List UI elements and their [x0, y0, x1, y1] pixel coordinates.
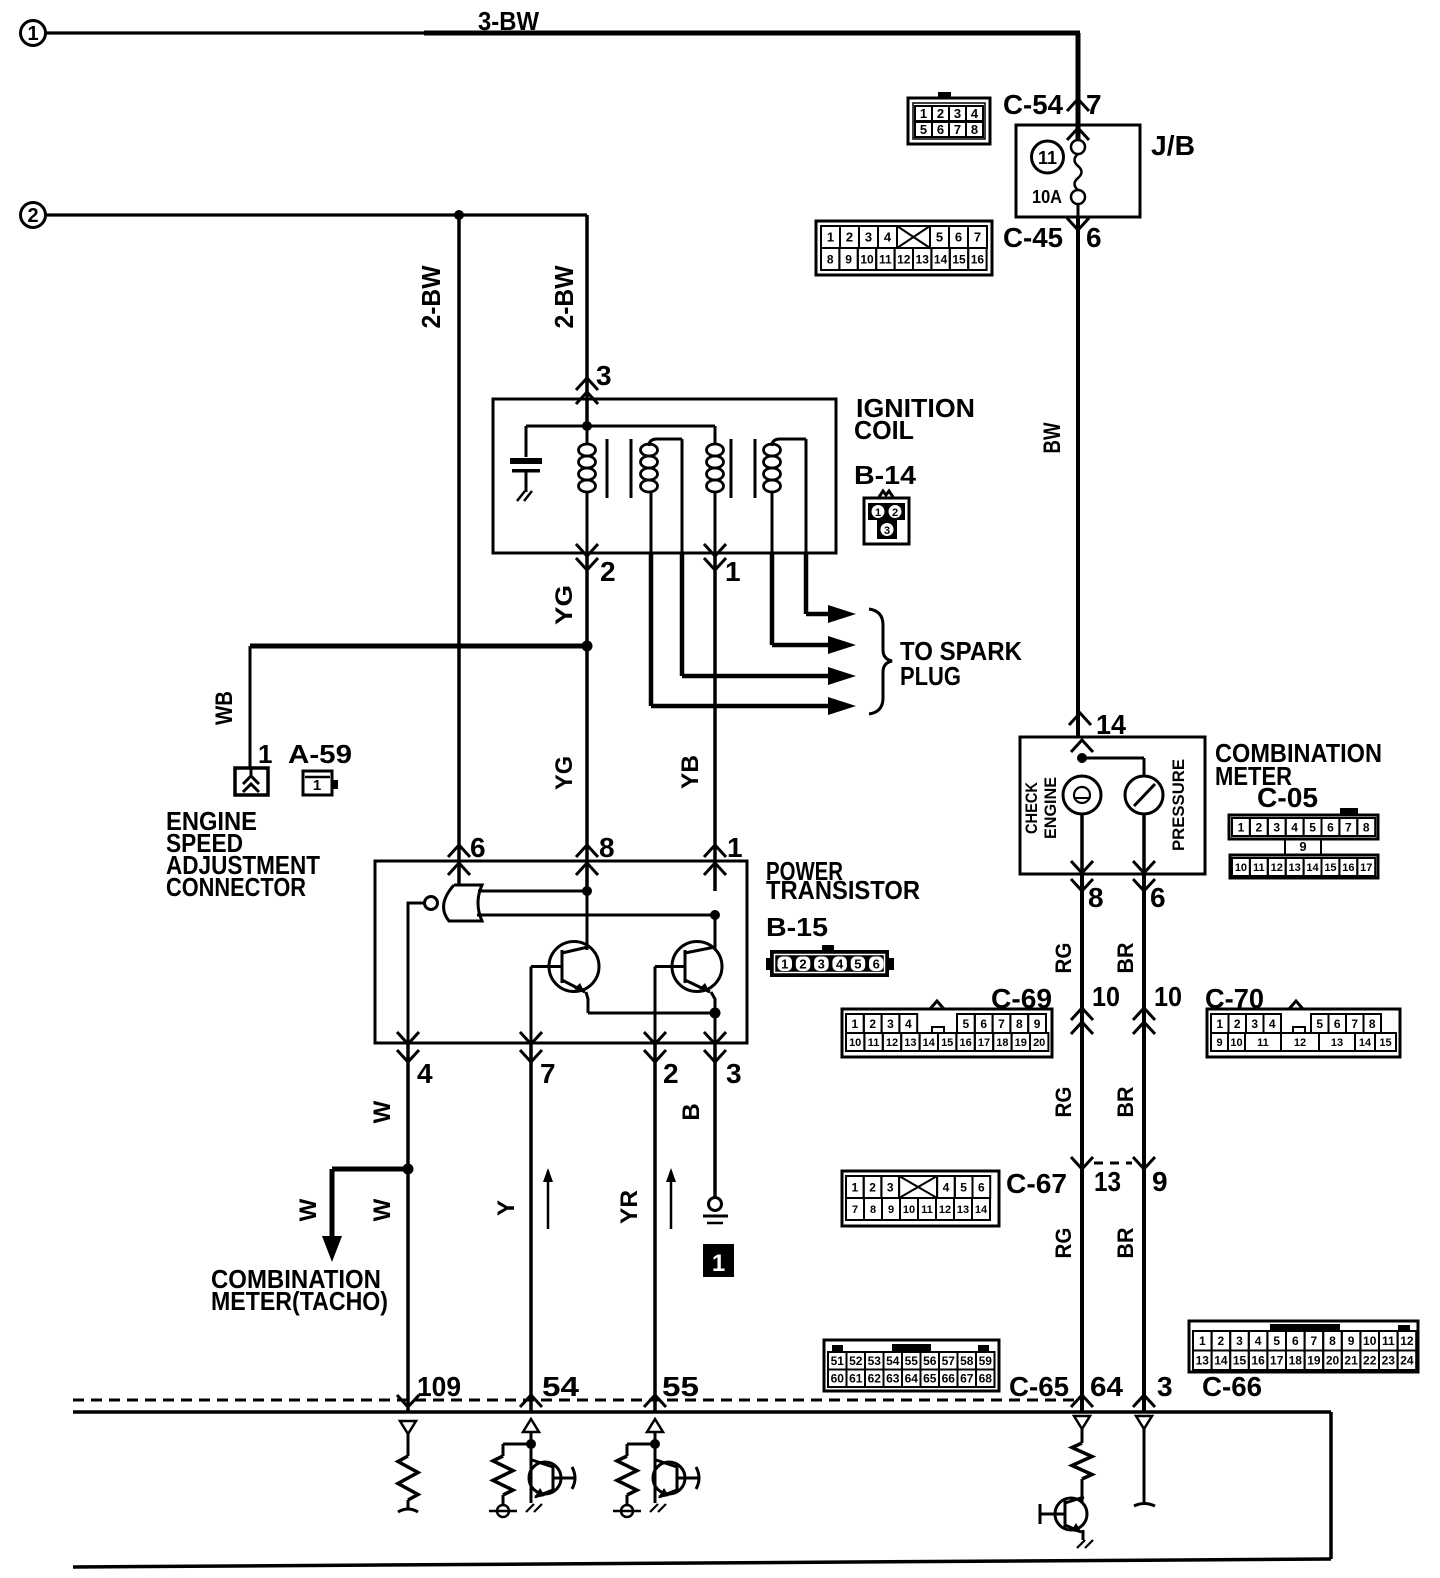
svg-text:1: 1 [313, 777, 321, 794]
svg-text:3: 3 [1157, 1371, 1173, 1402]
svg-text:METER(TACHO): METER(TACHO) [211, 1286, 388, 1316]
svg-text:J/B: J/B [1151, 130, 1195, 161]
svg-text:65: 65 [923, 1372, 937, 1386]
svg-text:22: 22 [1363, 1354, 1377, 1368]
svg-text:55: 55 [905, 1354, 919, 1368]
svg-text:12: 12 [897, 252, 911, 266]
svg-text:109: 109 [417, 1371, 461, 1402]
svg-text:13: 13 [1094, 1166, 1121, 1197]
svg-text:10: 10 [1363, 1334, 1377, 1348]
svg-text:20: 20 [1033, 1037, 1045, 1049]
svg-text:11: 11 [868, 1037, 880, 1049]
svg-text:64: 64 [1090, 1371, 1123, 1402]
svg-text:9: 9 [1348, 1334, 1355, 1348]
svg-text:8: 8 [870, 1204, 876, 1216]
svg-text:1: 1 [727, 832, 743, 863]
svg-text:11: 11 [1257, 1037, 1269, 1049]
svg-text:2: 2 [1234, 1017, 1241, 1031]
svg-text:11: 11 [1038, 148, 1057, 168]
svg-text:RG: RG [1051, 1087, 1076, 1118]
svg-text:7: 7 [1086, 89, 1102, 120]
svg-text:13: 13 [957, 1204, 969, 1216]
svg-text:6: 6 [1086, 222, 1102, 253]
svg-text:WB: WB [211, 691, 238, 725]
svg-text:6: 6 [873, 957, 880, 972]
svg-text:1: 1 [712, 1250, 725, 1277]
svg-text:14: 14 [923, 1037, 936, 1049]
svg-text:18: 18 [996, 1037, 1008, 1049]
svg-text:5: 5 [854, 957, 861, 972]
svg-text:19: 19 [1307, 1354, 1321, 1368]
svg-text:12: 12 [1294, 1037, 1306, 1049]
svg-text:6: 6 [1150, 882, 1166, 913]
svg-text:C-05: C-05 [1257, 782, 1318, 813]
svg-text:7: 7 [852, 1204, 858, 1216]
svg-text:6: 6 [470, 832, 486, 863]
svg-text:11: 11 [1382, 1334, 1395, 1348]
svg-text:61: 61 [849, 1372, 863, 1386]
svg-text:2: 2 [600, 556, 616, 587]
svg-text:Y: Y [493, 1200, 520, 1216]
svg-text:6: 6 [1292, 1334, 1299, 1348]
svg-text:7: 7 [954, 122, 961, 137]
svg-text:YR: YR [616, 1190, 643, 1224]
svg-text:YB: YB [677, 755, 704, 789]
svg-text:6: 6 [1334, 1017, 1341, 1031]
svg-text:15: 15 [941, 1037, 953, 1049]
svg-text:B: B [678, 1103, 705, 1120]
svg-text:10A: 10A [1032, 187, 1062, 207]
svg-text:1: 1 [781, 957, 788, 972]
svg-text:2: 2 [1218, 1334, 1225, 1348]
svg-text:10: 10 [1154, 981, 1182, 1012]
svg-text:16: 16 [1251, 1354, 1265, 1368]
svg-text:10: 10 [903, 1204, 915, 1216]
svg-text:57: 57 [942, 1354, 956, 1368]
svg-text:16: 16 [959, 1037, 971, 1049]
svg-text:8: 8 [599, 832, 615, 863]
svg-text:52: 52 [849, 1354, 863, 1368]
svg-text:12: 12 [1271, 862, 1283, 874]
svg-text:B-14: B-14 [854, 460, 917, 490]
svg-text:3: 3 [865, 230, 872, 245]
svg-text:6: 6 [937, 122, 944, 137]
svg-text:9: 9 [1299, 839, 1306, 854]
svg-text:2: 2 [27, 205, 38, 227]
svg-text:B-15: B-15 [766, 912, 828, 942]
svg-text:1: 1 [27, 23, 38, 45]
svg-text:C-45: C-45 [1003, 222, 1063, 253]
svg-text:13: 13 [1331, 1037, 1343, 1049]
svg-text:20: 20 [1326, 1354, 1340, 1368]
svg-text:RG: RG [1051, 943, 1076, 974]
svg-text:23: 23 [1382, 1354, 1396, 1368]
svg-text:YG: YG [551, 756, 578, 790]
svg-text:7: 7 [1311, 1334, 1318, 1348]
svg-text:1: 1 [852, 1180, 859, 1194]
svg-text:15: 15 [952, 252, 966, 266]
svg-text:10: 10 [849, 1037, 861, 1049]
svg-text:2: 2 [869, 1180, 876, 1194]
svg-text:3: 3 [954, 106, 961, 121]
svg-text:PRESSURE: PRESSURE [1169, 759, 1188, 851]
svg-text:5: 5 [936, 230, 943, 245]
svg-text:24: 24 [1400, 1354, 1414, 1368]
svg-text:15: 15 [1233, 1354, 1247, 1368]
svg-text:4: 4 [971, 106, 979, 121]
svg-text:2: 2 [663, 1058, 679, 1089]
svg-text:6: 6 [980, 1017, 987, 1031]
svg-text:2: 2 [937, 106, 944, 121]
svg-text:68: 68 [979, 1372, 993, 1386]
svg-text:2: 2 [892, 507, 898, 519]
svg-text:58: 58 [960, 1354, 974, 1368]
svg-text:8: 8 [971, 122, 978, 137]
svg-text:BR: BR [1113, 942, 1138, 973]
svg-text:1: 1 [875, 507, 881, 519]
svg-text:19: 19 [1015, 1037, 1027, 1049]
svg-text:15: 15 [1379, 1037, 1391, 1049]
svg-text:66: 66 [942, 1372, 956, 1386]
svg-text:11: 11 [921, 1204, 933, 1216]
svg-text:1: 1 [1238, 820, 1245, 834]
svg-text:1: 1 [725, 556, 741, 587]
svg-text:A-59: A-59 [288, 739, 352, 769]
svg-text:17: 17 [1270, 1354, 1284, 1368]
svg-text:CHECK: CHECK [1022, 781, 1041, 834]
svg-text:11: 11 [879, 252, 892, 266]
svg-text:3: 3 [1251, 1017, 1258, 1031]
svg-text:1: 1 [258, 739, 272, 769]
svg-text:14: 14 [1359, 1037, 1372, 1049]
svg-text:9: 9 [1216, 1037, 1222, 1049]
svg-text:TRANSISTOR: TRANSISTOR [766, 875, 920, 905]
svg-text:PLUG: PLUG [900, 661, 961, 691]
svg-text:14: 14 [975, 1204, 988, 1216]
svg-text:8: 8 [1088, 882, 1104, 913]
svg-text:1: 1 [1216, 1017, 1223, 1031]
svg-text:3: 3 [596, 360, 612, 391]
svg-text:16: 16 [971, 252, 985, 266]
svg-text:64: 64 [905, 1372, 919, 1386]
svg-text:3-BW: 3-BW [478, 6, 539, 36]
svg-text:2-BW: 2-BW [549, 265, 579, 328]
svg-text:W: W [369, 1198, 396, 1221]
svg-text:8: 8 [1369, 1017, 1376, 1031]
svg-text:4: 4 [1255, 1334, 1262, 1348]
svg-text:13: 13 [1289, 862, 1301, 874]
svg-text:54: 54 [542, 1371, 579, 1402]
svg-text:5: 5 [1309, 820, 1316, 834]
svg-text:6: 6 [955, 230, 962, 245]
svg-text:10: 10 [1092, 981, 1120, 1012]
svg-text:C-67: C-67 [1006, 1168, 1067, 1199]
svg-text:12: 12 [886, 1037, 898, 1049]
svg-text:59: 59 [979, 1354, 993, 1368]
svg-text:60: 60 [831, 1372, 845, 1386]
svg-text:17: 17 [978, 1037, 990, 1049]
svg-text:17: 17 [1360, 862, 1372, 874]
svg-text:21: 21 [1344, 1354, 1358, 1368]
svg-text:8: 8 [1016, 1017, 1023, 1031]
svg-text:6: 6 [978, 1180, 985, 1194]
svg-text:1: 1 [920, 106, 927, 121]
svg-text:2: 2 [1256, 820, 1263, 834]
svg-text:BW: BW [1039, 422, 1066, 453]
svg-text:4: 4 [1269, 1017, 1276, 1031]
svg-text:W: W [369, 1100, 396, 1123]
svg-text:56: 56 [923, 1354, 937, 1368]
svg-text:3: 3 [887, 1180, 894, 1194]
svg-text:62: 62 [868, 1372, 882, 1386]
svg-text:C-66: C-66 [1202, 1371, 1262, 1402]
svg-text:3: 3 [1236, 1334, 1243, 1348]
svg-text:9: 9 [1152, 1166, 1168, 1197]
svg-text:W: W [295, 1198, 322, 1221]
svg-text:4: 4 [417, 1058, 433, 1089]
svg-text:15: 15 [1324, 862, 1336, 874]
svg-text:CONNECTOR: CONNECTOR [166, 872, 306, 902]
svg-text:67: 67 [960, 1372, 974, 1386]
svg-text:13: 13 [904, 1037, 916, 1049]
svg-text:YG: YG [551, 585, 578, 625]
svg-text:5: 5 [963, 1017, 970, 1031]
svg-text:1: 1 [1199, 1334, 1206, 1348]
svg-text:3: 3 [884, 525, 890, 537]
svg-text:4: 4 [943, 1180, 950, 1194]
svg-text:ENGINE: ENGINE [1041, 777, 1060, 839]
svg-text:4: 4 [884, 230, 892, 245]
svg-text:RG: RG [1051, 1228, 1076, 1259]
svg-text:63: 63 [886, 1372, 900, 1386]
svg-text:14: 14 [1096, 709, 1126, 740]
svg-text:2: 2 [869, 1017, 876, 1031]
svg-text:4: 4 [1291, 820, 1298, 834]
svg-text:7: 7 [1345, 820, 1352, 834]
svg-text:14: 14 [934, 252, 948, 266]
svg-text:3: 3 [1273, 820, 1280, 834]
svg-text:BR: BR [1113, 1227, 1138, 1258]
svg-text:7: 7 [540, 1058, 556, 1089]
svg-text:13: 13 [916, 252, 930, 266]
svg-text:14: 14 [1306, 862, 1319, 874]
svg-text:2: 2 [799, 957, 806, 972]
svg-text:54: 54 [886, 1354, 900, 1368]
svg-text:5: 5 [1316, 1017, 1323, 1031]
svg-text:C-54: C-54 [1003, 89, 1063, 120]
svg-text:C-65: C-65 [1009, 1371, 1069, 1402]
svg-text:3: 3 [726, 1058, 742, 1089]
svg-text:51: 51 [831, 1354, 845, 1368]
svg-text:3: 3 [887, 1017, 894, 1031]
svg-text:16: 16 [1342, 862, 1354, 874]
svg-text:53: 53 [868, 1354, 882, 1368]
svg-text:18: 18 [1289, 1354, 1303, 1368]
svg-text:5: 5 [960, 1180, 967, 1194]
svg-text:55: 55 [662, 1371, 699, 1402]
svg-text:8: 8 [827, 252, 834, 266]
svg-text:1: 1 [827, 230, 834, 245]
svg-text:BR: BR [1113, 1086, 1138, 1117]
svg-text:4: 4 [836, 957, 844, 972]
svg-text:10: 10 [860, 252, 874, 266]
svg-text:12: 12 [1400, 1334, 1414, 1348]
svg-text:9: 9 [1034, 1017, 1041, 1031]
svg-text:7: 7 [1351, 1017, 1358, 1031]
svg-text:5: 5 [1273, 1334, 1280, 1348]
svg-text:13: 13 [1196, 1354, 1210, 1368]
svg-text:6: 6 [1327, 820, 1334, 834]
svg-text:7: 7 [974, 230, 981, 245]
svg-text:12: 12 [939, 1204, 951, 1216]
svg-text:14: 14 [1214, 1354, 1228, 1368]
svg-text:3: 3 [818, 957, 825, 972]
svg-text:10: 10 [1235, 862, 1247, 874]
svg-text:2-BW: 2-BW [416, 265, 446, 328]
svg-text:7: 7 [998, 1017, 1005, 1031]
svg-text:5: 5 [920, 122, 927, 137]
svg-text:9: 9 [888, 1204, 894, 1216]
svg-text:8: 8 [1329, 1334, 1336, 1348]
svg-text:2: 2 [846, 230, 853, 245]
svg-text:10: 10 [1230, 1037, 1242, 1049]
svg-text:4: 4 [905, 1017, 912, 1031]
svg-text:1: 1 [852, 1017, 859, 1031]
svg-text:11: 11 [1253, 862, 1265, 874]
svg-text:9: 9 [845, 252, 852, 266]
svg-text:COIL: COIL [854, 415, 914, 445]
svg-text:8: 8 [1363, 820, 1370, 834]
